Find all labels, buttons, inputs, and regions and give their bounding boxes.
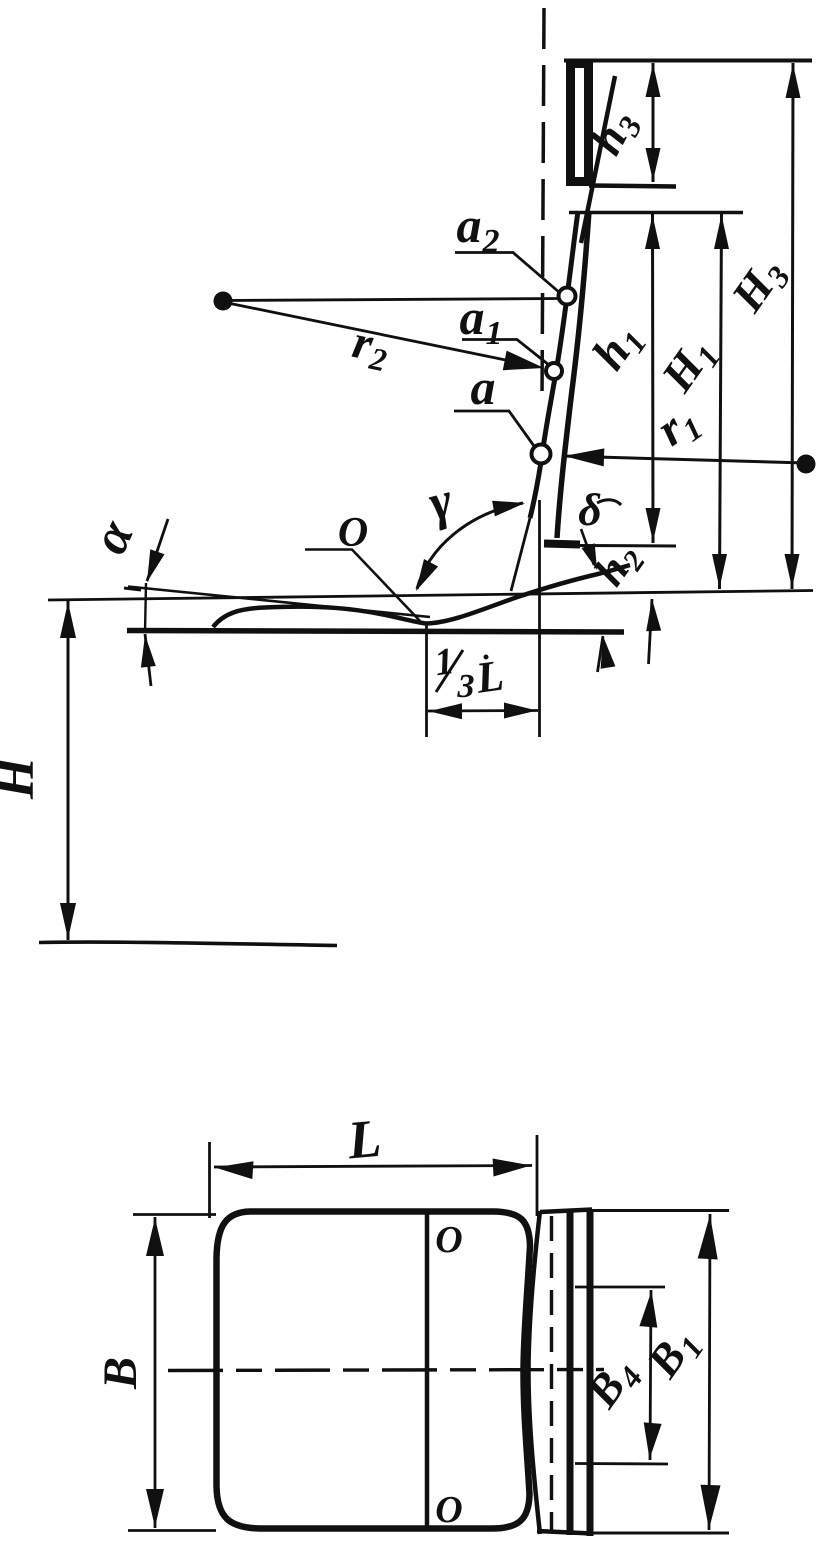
plan view centerline dashed — [168, 1370, 604, 1371]
point a2 circle — [559, 288, 576, 305]
dimension H1 line — [720, 214, 722, 589]
svg-text:O: O — [435, 1219, 462, 1261]
B top extension line — [133, 1213, 216, 1216]
svg-text:3: 3 — [457, 668, 475, 705]
seat pan outline plan view — [217, 1212, 531, 1529]
L right extension line — [536, 1135, 539, 1216]
svg-text:L: L — [344, 1108, 383, 1171]
backrest tangent plane dashed line — [542, 8, 544, 400]
backrest bottom edge — [544, 544, 580, 545]
B1 top extension line — [592, 1209, 729, 1212]
radius r1 line with center point — [563, 456, 806, 463]
backrest top extension line — [569, 211, 743, 215]
dimension h3 line — [652, 63, 655, 182]
alpha upper arrow — [147, 519, 168, 581]
H dimension line — [67, 601, 70, 940]
L dimension line — [214, 1166, 532, 1168]
h2 lower arrow — [649, 599, 653, 664]
svg-text:δ: δ — [578, 484, 602, 535]
radius r2 upper line to point a2 — [223, 299, 560, 301]
top extension line at headrest top — [564, 59, 812, 63]
one-third L dimension line — [428, 709, 538, 712]
radius r2 center point — [214, 292, 233, 311]
seat level reference line — [48, 591, 813, 601]
seat cushion top profile — [213, 565, 630, 627]
L left extension line — [208, 1142, 211, 1218]
auxiliary up arrow at seat rear — [598, 636, 604, 672]
backrest front edge plan view — [529, 1211, 541, 1534]
backrest rear profile line — [557, 211, 589, 538]
alpha angle tick — [124, 588, 141, 590]
backrest rear line plan view — [587, 1209, 594, 1536]
backrest frame line through headrest — [581, 76, 615, 243]
svg-text:a: a — [471, 359, 496, 415]
point a1 circle — [546, 363, 562, 379]
B4 bottom extension line — [575, 1462, 668, 1465]
floor reference line — [39, 942, 337, 945]
unloaded cushion slope line — [128, 587, 430, 618]
backrest bottom edge plan view — [537, 1531, 592, 1534]
backrest section plane dashed line plan view — [550, 1216, 553, 1533]
B1 bottom extension line — [592, 1532, 729, 1535]
svg-text:H: H — [0, 755, 45, 800]
alpha dimension connector — [145, 583, 146, 632]
section line O-O — [425, 1214, 430, 1529]
radius r2 lower line with arrow to point a1 — [223, 302, 535, 366]
point a circle — [532, 445, 551, 464]
svg-text:B: B — [94, 1357, 147, 1390]
B1 dimension line — [709, 1214, 710, 1530]
seat cushion bottom line — [127, 631, 624, 633]
gamma angle arc with arrows — [417, 503, 523, 589]
backrest front line lower extension to seat — [511, 518, 530, 591]
dimension H3 line — [792, 63, 793, 589]
svg-text:O: O — [435, 1489, 462, 1531]
headrest bottom extension line — [589, 186, 676, 187]
alpha lower arrow — [145, 634, 151, 686]
backrest top edge plan view — [540, 1210, 592, 1213]
B dimension line — [154, 1217, 157, 1528]
backrest front profile line — [530, 211, 578, 518]
one-third L left extension line — [425, 622, 428, 737]
backrest mid line plan view — [567, 1210, 574, 1535]
B bottom extension line — [128, 1529, 216, 1532]
dimension h1 line — [651, 214, 655, 543]
headrest — [571, 64, 589, 182]
B4 top extension line — [575, 1286, 665, 1289]
B4 dimension line — [650, 1290, 651, 1460]
backrest bottom extension line — [580, 544, 676, 548]
one-third L right extension line — [538, 500, 541, 737]
